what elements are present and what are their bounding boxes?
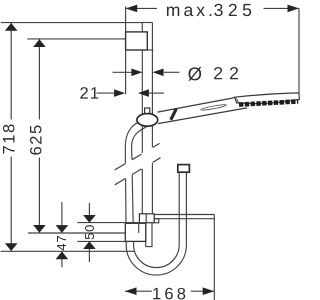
svg-text:625: 625 — [28, 123, 46, 155]
svg-text:Ø: Ø — [188, 63, 205, 84]
svg-text:47: 47 — [54, 235, 69, 251]
svg-text:168: 168 — [152, 285, 189, 300]
svg-text:325: 325 — [214, 0, 257, 20]
svg-text:max.: max. — [166, 0, 216, 20]
svg-text:21: 21 — [79, 85, 100, 103]
svg-text:50: 50 — [82, 224, 97, 240]
svg-text:718: 718 — [0, 122, 18, 154]
svg-text:22: 22 — [213, 63, 245, 83]
